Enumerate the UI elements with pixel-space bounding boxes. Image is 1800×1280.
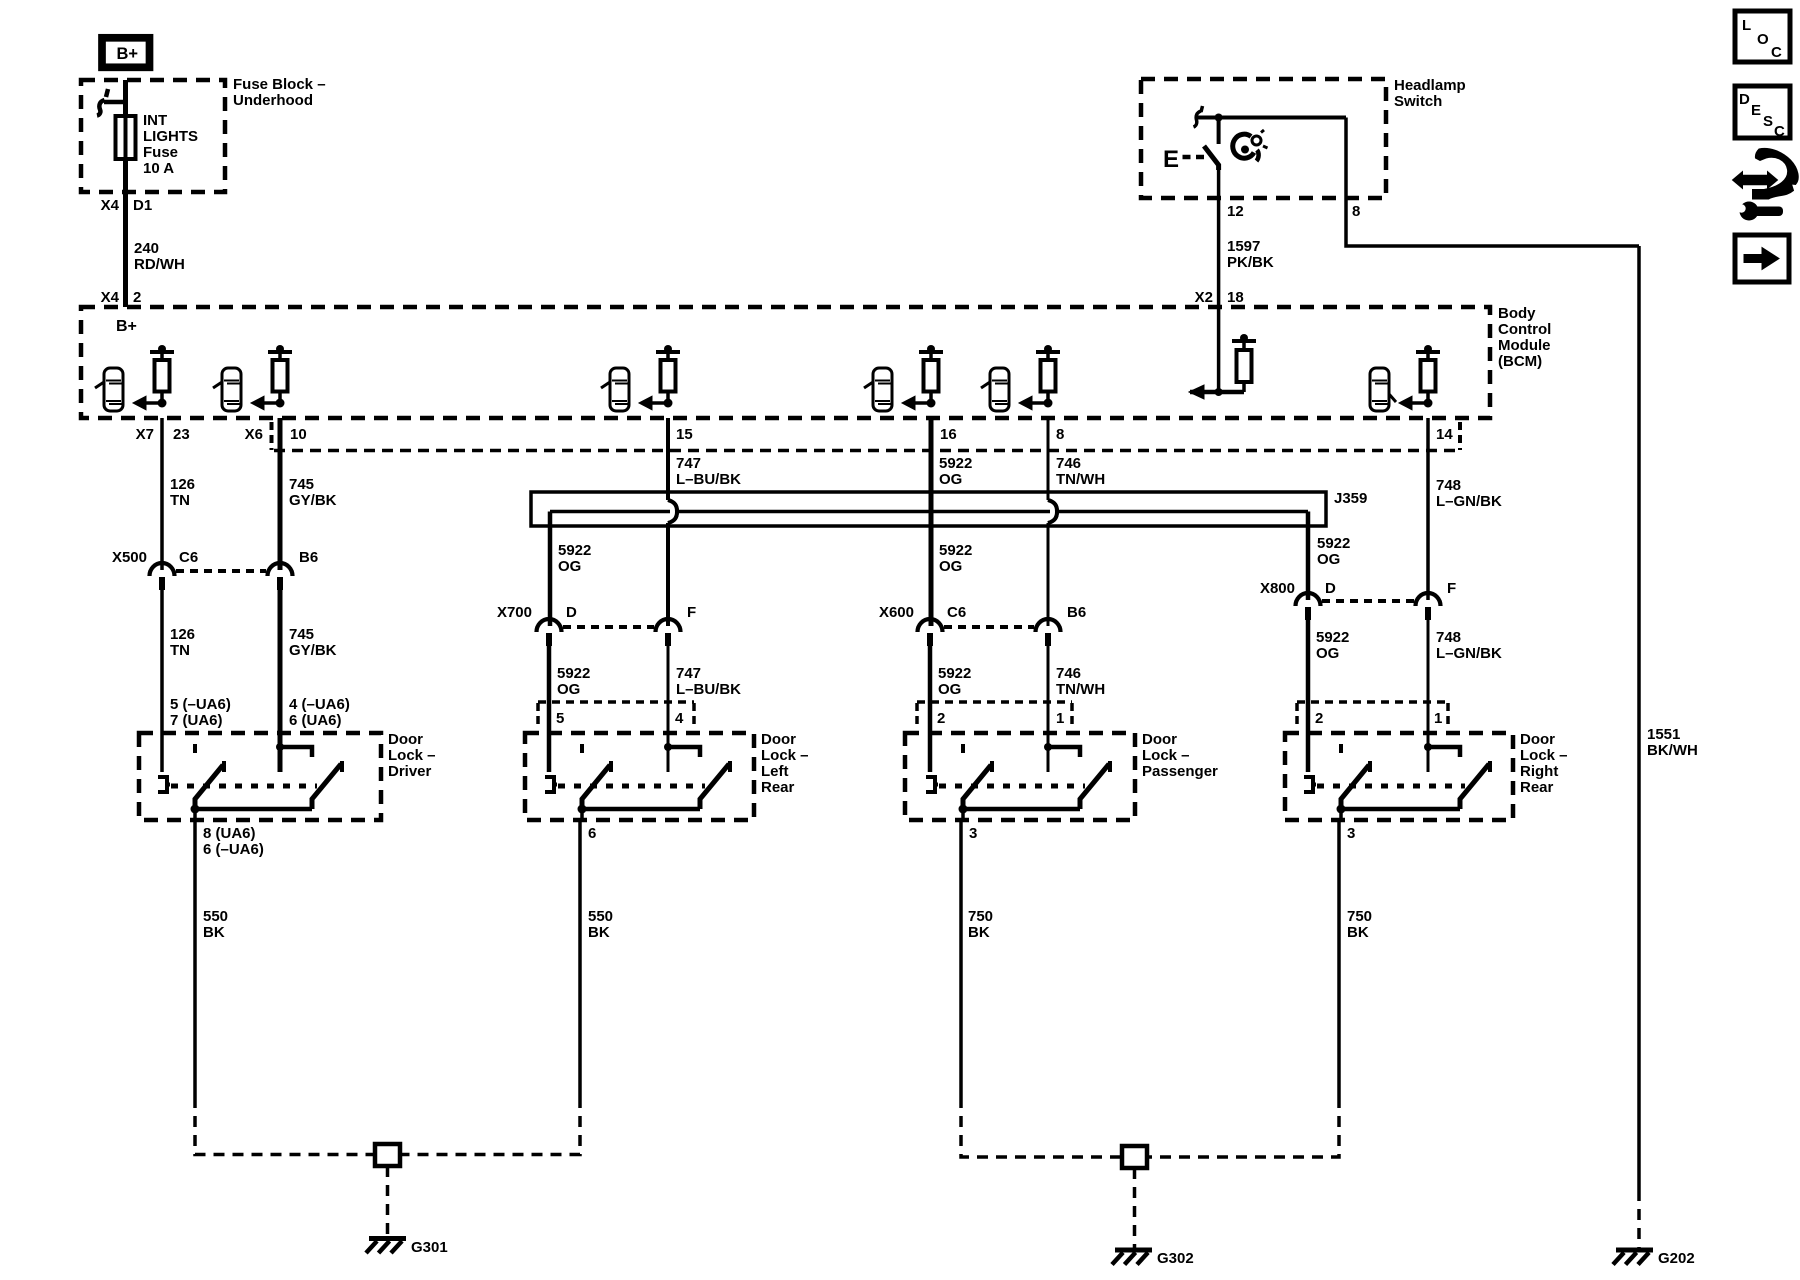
headlamp switch (dashed box) [1141, 79, 1386, 198]
load pictograph [990, 368, 1009, 411]
svg-text:OG: OG [939, 558, 962, 575]
svg-text:126: 126 [170, 476, 195, 493]
switch blade lock [1080, 764, 1109, 809]
switch common line [582, 807, 700, 812]
svg-text:5922: 5922 [938, 665, 971, 682]
wire: 550 BK driver door to splice [193, 822, 197, 1097]
wire: headlamp input internal [1190, 390, 1244, 395]
switch fixed contact clip [1194, 106, 1203, 127]
svg-text:5922: 5922 [939, 455, 972, 472]
wire: 750 BK passenger door to splice [959, 822, 963, 1097]
svg-text:550: 550 [203, 908, 228, 925]
junction [1215, 114, 1223, 122]
svg-text:8: 8 [1352, 203, 1360, 220]
connector mark [1339, 744, 1343, 757]
svg-text:2: 2 [133, 289, 141, 306]
svg-text:10: 10 [290, 426, 307, 443]
svg-text:TN/WH: TN/WH [1056, 681, 1105, 698]
junction [1215, 388, 1223, 396]
junction [578, 805, 587, 814]
fuse terminal clip [97, 89, 128, 116]
fuse block - underhood (dashed box) [81, 80, 225, 192]
svg-text:Switch: Switch [1394, 93, 1442, 110]
switch common line [963, 807, 1080, 812]
svg-text:OG: OG [1317, 551, 1340, 568]
svg-text:Headlamp: Headlamp [1394, 77, 1466, 94]
svg-text:5922: 5922 [557, 665, 590, 682]
switch output wire [580, 809, 584, 822]
connector X600 terminal C6 [918, 619, 943, 632]
wire: 240 RD/WH fuse to BCM [123, 159, 128, 307]
splice pack J359 body [531, 492, 1326, 526]
junction [664, 399, 673, 408]
svg-text:Passenger: Passenger [1142, 763, 1218, 780]
svg-text:INT: INT [143, 112, 167, 129]
svg-text:Fuse: Fuse [143, 144, 178, 161]
BCM output driver element [1041, 360, 1056, 392]
wire: switch pin 8 branch [1346, 118, 1639, 247]
svg-text:6: 6 [588, 825, 596, 842]
junction [927, 399, 936, 408]
svg-text:126: 126 [170, 626, 195, 643]
load pictograph [104, 368, 123, 411]
svg-text:BK: BK [968, 924, 990, 941]
switch input terminal bracket [1304, 777, 1316, 792]
headlamp icon [1233, 134, 1254, 158]
svg-text:5922: 5922 [558, 542, 591, 559]
svg-text:B6: B6 [299, 549, 318, 566]
svg-text:2: 2 [937, 710, 945, 727]
connector boundary (dashed) [538, 700, 694, 704]
svg-text:G302: G302 [1157, 1250, 1194, 1267]
svg-text:Lock –: Lock – [1520, 747, 1568, 764]
svg-text:4 (–UA6): 4 (–UA6) [289, 696, 350, 713]
door lock switch: Door Lock - Left Rear (dashed box) [525, 733, 754, 820]
svg-text:10 A: 10 A [143, 160, 174, 177]
svg-text:12: 12 [1227, 203, 1244, 220]
ground splice block [1122, 1146, 1147, 1168]
svg-text:746: 746 [1056, 665, 1081, 682]
connector X500 dashed link [176, 569, 266, 573]
headlamp input driver [1232, 339, 1256, 343]
svg-text:748: 748 [1436, 477, 1461, 494]
wire hop over splice bus [668, 500, 677, 523]
wire: X2-18 into BCM [1217, 307, 1221, 392]
svg-text:E: E [1751, 102, 1761, 119]
svg-text:1: 1 [1434, 710, 1442, 727]
svg-text:D: D [566, 604, 577, 621]
svg-text:8 (UA6): 8 (UA6) [203, 825, 256, 842]
svg-text:F: F [1447, 580, 1456, 597]
svg-text:BK: BK [588, 924, 610, 941]
connector boundary (dashed) [1297, 700, 1448, 704]
switch blade lock [700, 764, 729, 809]
BCM output driver element [155, 360, 170, 392]
connector X800 terminal F [1416, 593, 1441, 606]
connector mark [580, 744, 584, 757]
svg-text:2: 2 [1315, 710, 1323, 727]
switch input terminal bracket [545, 777, 557, 792]
wire: 5922 OG X700 to door lock left rear [547, 645, 552, 772]
svg-text:TN/WH: TN/WH [1056, 471, 1105, 488]
wire: 746 TN/WH BCM to splice hop [1047, 418, 1050, 500]
ground G302 [1115, 1248, 1152, 1253]
svg-text:X800: X800 [1260, 580, 1295, 597]
fuse INT LIGHTS 10 A [116, 116, 136, 159]
svg-text:TN: TN [170, 642, 190, 659]
svg-text:B+: B+ [116, 318, 137, 335]
wire: 5922 OG X600 to door lock passenger [928, 645, 933, 772]
svg-text:747: 747 [676, 665, 701, 682]
junction [1044, 399, 1053, 408]
ground lead G301 (dashed) [386, 1166, 390, 1236]
svg-text:GY/BK: GY/BK [289, 642, 337, 659]
svg-text:BK: BK [203, 924, 225, 941]
svg-text:J359: J359 [1334, 490, 1367, 507]
connector X600 dashed link [944, 625, 1034, 629]
wire: 750 BK right rear to splice [1337, 822, 1341, 1097]
junction [191, 805, 200, 814]
svg-text:BK: BK [1347, 924, 1369, 941]
svg-text:Door: Door [1142, 731, 1177, 748]
svg-text:D: D [1739, 91, 1750, 108]
wire: 747 L-BU/BK X700 to door lock left rear [667, 645, 670, 772]
battery feed terminal B+ [102, 38, 150, 68]
svg-text:Rear: Rear [761, 779, 795, 796]
svg-text:X2: X2 [1195, 289, 1213, 306]
svg-text:G301: G301 [411, 1239, 448, 1256]
svg-text:S: S [1763, 113, 1773, 130]
svg-text:C: C [1774, 123, 1785, 140]
svg-text:L–BU/BK: L–BU/BK [676, 681, 741, 698]
svg-text:18: 18 [1227, 289, 1244, 306]
svg-text:Door: Door [761, 731, 796, 748]
svg-text:L–GN/BK: L–GN/BK [1436, 493, 1502, 510]
load pictograph [1370, 368, 1389, 411]
splice bus 5922 [550, 510, 1308, 514]
wire: 550 BK left rear to splice [578, 822, 582, 1097]
door lock switch: Door Lock - Driver (dashed box) [139, 733, 381, 820]
svg-text:E: E [1163, 146, 1179, 173]
svg-text:(BCM): (BCM) [1498, 353, 1542, 370]
driver control arrow [915, 401, 931, 405]
junction [959, 805, 968, 814]
svg-text:14: 14 [1436, 426, 1453, 443]
svg-text:3: 3 [969, 825, 977, 842]
switch common line [195, 807, 312, 812]
connector X6 extent line [274, 449, 1460, 453]
fixed contact from lock feed [276, 743, 284, 751]
connector X700 dashed link [563, 625, 654, 629]
icon: arrow box [1735, 235, 1789, 282]
svg-text:O: O [1757, 31, 1769, 48]
wire: 5922 OG splice drop to X700 D [548, 512, 553, 627]
svg-text:550: 550 [588, 908, 613, 925]
svg-text:3: 3 [1347, 825, 1355, 842]
svg-text:OG: OG [557, 681, 580, 698]
svg-text:B6: B6 [1067, 604, 1086, 621]
wire: 747 L-BU/BK splice to X700 F [666, 523, 670, 626]
wire: 746 TN/WH splice to X600 B6 [1047, 523, 1050, 626]
driver control arrow [652, 401, 668, 405]
svg-text:LIGHTS: LIGHTS [143, 128, 198, 145]
svg-text:G202: G202 [1658, 1250, 1695, 1267]
wire: 1551 BK/WH switch to ground [1637, 246, 1641, 1190]
mechanical link (dotted) [1317, 784, 1465, 789]
svg-text:C6: C6 [179, 549, 198, 566]
svg-text:X4: X4 [101, 289, 120, 306]
svg-text:BK/WH: BK/WH [1647, 742, 1698, 759]
svg-text:Lock –: Lock – [1142, 747, 1190, 764]
svg-text:Rear: Rear [1520, 779, 1554, 796]
junction [158, 399, 167, 408]
svg-text:Driver: Driver [388, 763, 432, 780]
svg-text:7 (UA6): 7 (UA6) [170, 712, 223, 729]
junction [1337, 805, 1346, 814]
BCM output driver element [924, 360, 939, 392]
fixed contact from lock feed [664, 743, 672, 751]
switch blade unlock [1341, 765, 1369, 809]
BCM driver T-bar tap [268, 350, 292, 354]
BCM output driver element [1421, 360, 1436, 392]
svg-text:X600: X600 [879, 604, 914, 621]
body control module (dashed box) [81, 307, 1490, 418]
svg-text:Left: Left [761, 763, 789, 780]
connector mark [961, 744, 965, 757]
wire: switch feed internal [1197, 116, 1346, 120]
svg-text:L–GN/BK: L–GN/BK [1436, 645, 1502, 662]
switch contact stem [1217, 118, 1221, 145]
switch blade unlock [582, 765, 610, 809]
connector X800 terminal D [1296, 593, 1321, 606]
fixed contact from lock feed [1044, 743, 1052, 751]
svg-text:746: 746 [1056, 455, 1081, 472]
load pictograph [610, 368, 629, 411]
svg-text:OG: OG [938, 681, 961, 698]
switch common line [1341, 807, 1460, 812]
switch blade [1204, 146, 1219, 170]
mechanical link dashes [1183, 155, 1191, 160]
connector X500 terminal C6 [150, 563, 175, 576]
wire hop over splice bus [1048, 500, 1057, 523]
connector X800 dashed link [1322, 599, 1414, 603]
wire: 745 GY/BK BCM to X500 [278, 418, 283, 570]
svg-text:745: 745 [289, 626, 314, 643]
BCM driver T-bar tap [1416, 350, 1440, 354]
wire: 750 BK dashed runs to ground splice [961, 1097, 1121, 1157]
connector X6 boundary mark [270, 422, 274, 450]
switch blade unlock [963, 765, 991, 809]
BCM output driver element [661, 360, 676, 392]
svg-text:L: L [1742, 17, 1751, 34]
ground G202 [1616, 1248, 1653, 1253]
svg-text:Module: Module [1498, 337, 1551, 354]
mechanical link (dotted) [558, 784, 705, 789]
ground splice block [375, 1144, 400, 1166]
wire: 126 TN BCM to X500 [160, 418, 164, 570]
fixed contact from lock feed [1424, 743, 1432, 751]
switch blade lock [1460, 764, 1489, 809]
switch blade unlock [195, 765, 223, 809]
icon: LOC box [1735, 11, 1790, 62]
svg-text:C6: C6 [947, 604, 966, 621]
svg-text:X700: X700 [497, 604, 532, 621]
svg-text:Door: Door [388, 731, 423, 748]
svg-text:GY/BK: GY/BK [289, 492, 337, 509]
switch input terminal bracket [926, 777, 938, 792]
wire: 746 TN/WH X600 to door lock passenger [1047, 645, 1050, 772]
junction [276, 399, 285, 408]
svg-text:X6: X6 [245, 426, 263, 443]
svg-text:5: 5 [556, 710, 564, 727]
wire: battery feed into fuse block [123, 80, 128, 116]
wire: 126 TN X500 to door lock driver [160, 590, 164, 772]
svg-text:OG: OG [939, 471, 962, 488]
svg-text:RD/WH: RD/WH [134, 256, 185, 273]
svg-text:Control: Control [1498, 321, 1551, 338]
driver control arrow [146, 401, 162, 405]
svg-text:TN: TN [170, 492, 190, 509]
BCM driver T-bar tap [656, 350, 680, 354]
connector X700 terminal D [537, 619, 562, 632]
load pictograph [873, 368, 892, 411]
switch input terminal bracket [158, 777, 170, 792]
bus breaks at wire hops [670, 508, 677, 516]
driver control arrow [1032, 401, 1048, 405]
svg-text:5 (–UA6): 5 (–UA6) [170, 696, 231, 713]
wire: 745 GY/BK X500 to door lock driver [278, 590, 283, 772]
svg-text:B+: B+ [117, 45, 139, 63]
wire: 747 L-BU/BK BCM to splice hop [666, 418, 670, 500]
svg-text:747: 747 [676, 455, 701, 472]
svg-text:240: 240 [134, 240, 159, 257]
ground G301 [369, 1236, 406, 1241]
svg-text:X4: X4 [101, 197, 120, 214]
connector X500 terminal B6 [268, 563, 293, 576]
svg-text:5922: 5922 [1316, 629, 1349, 646]
wire: 550 BK dashed runs to ground splice [195, 1097, 374, 1155]
svg-text:X7: X7 [136, 426, 154, 443]
svg-text:Right: Right [1520, 763, 1558, 780]
svg-text:OG: OG [1316, 645, 1339, 662]
wire: 748 L-GN/BK X800 to door lock right rear [1427, 620, 1430, 772]
svg-text:23: 23 [173, 426, 190, 443]
BCM output driver element [273, 360, 288, 392]
svg-text:5922: 5922 [939, 542, 972, 559]
connector X600 terminal B6 [1036, 619, 1061, 632]
switch output wire [1339, 809, 1343, 822]
svg-text:6 (–UA6): 6 (–UA6) [203, 841, 264, 858]
svg-text:750: 750 [1347, 908, 1372, 925]
connector boundary mark right [1458, 422, 1462, 450]
icon: double arrow with wrench [1753, 148, 1799, 199]
connector mark [193, 744, 197, 757]
door lock switch: Door Lock - Passenger (dashed box) [905, 733, 1135, 820]
svg-text:8: 8 [1056, 426, 1064, 443]
svg-text:4: 4 [675, 710, 684, 727]
svg-text:Fuse Block –: Fuse Block – [233, 76, 326, 93]
svg-text:5922: 5922 [1317, 535, 1350, 552]
icon: DESC box [1735, 86, 1790, 138]
driver control arrow [1412, 401, 1428, 405]
svg-text:Door: Door [1520, 731, 1555, 748]
svg-text:15: 15 [676, 426, 693, 443]
svg-text:1: 1 [1056, 710, 1064, 727]
wire: 748 L-GN/BK BCM to X800 F [1426, 418, 1430, 600]
switch blade lock [312, 764, 341, 809]
wire: 5922 OG BCM pin16 to splice [929, 418, 934, 512]
BCM driver T-bar tap [150, 350, 174, 354]
svg-text:Underhood: Underhood [233, 92, 313, 109]
svg-text:C: C [1771, 44, 1782, 61]
svg-text:D1: D1 [133, 197, 152, 214]
switch output wire [961, 809, 965, 822]
switch output wire [193, 809, 197, 822]
wire: 1597 PK/BK switch pin 12 to BCM [1217, 165, 1221, 307]
door lock switch: Door Lock - Right Rear (dashed box) [1285, 733, 1513, 820]
svg-text:745: 745 [289, 476, 314, 493]
wire: 5922 OG X800 to door lock right rear [1306, 620, 1311, 772]
svg-text:OG: OG [558, 558, 581, 575]
ground lead G202 (dashed) [1637, 1190, 1641, 1248]
BCM driver T-bar tap [1036, 350, 1060, 354]
svg-text:Lock –: Lock – [761, 747, 809, 764]
svg-text:Lock –: Lock – [388, 747, 436, 764]
svg-text:PK/BK: PK/BK [1227, 254, 1274, 271]
svg-text:16: 16 [940, 426, 957, 443]
svg-text:L–BU/BK: L–BU/BK [676, 471, 741, 488]
mechanical link (dotted) [939, 784, 1085, 789]
svg-text:1597: 1597 [1227, 238, 1260, 255]
svg-text:6 (UA6): 6 (UA6) [289, 712, 342, 729]
svg-text:F: F [687, 604, 696, 621]
driver control arrow [264, 401, 280, 405]
load pictograph [222, 368, 241, 411]
svg-text:1551: 1551 [1647, 726, 1680, 743]
svg-text:Body: Body [1498, 305, 1536, 322]
connector X700 terminal F [656, 619, 681, 632]
BCM driver T-bar tap [919, 350, 943, 354]
svg-text:D: D [1325, 580, 1336, 597]
svg-text:X500: X500 [112, 549, 147, 566]
svg-text:750: 750 [968, 908, 993, 925]
connector boundary (dashed) [917, 700, 1072, 704]
ground lead G302 (dashed) [1133, 1168, 1137, 1248]
mechanical link (dotted) [171, 784, 317, 789]
svg-text:748: 748 [1436, 629, 1461, 646]
wire: 5922 OG splice to X600 C6 [929, 512, 934, 627]
junction [1424, 399, 1433, 408]
wire: 5922 OG splice drop to X800 D [1306, 512, 1311, 601]
